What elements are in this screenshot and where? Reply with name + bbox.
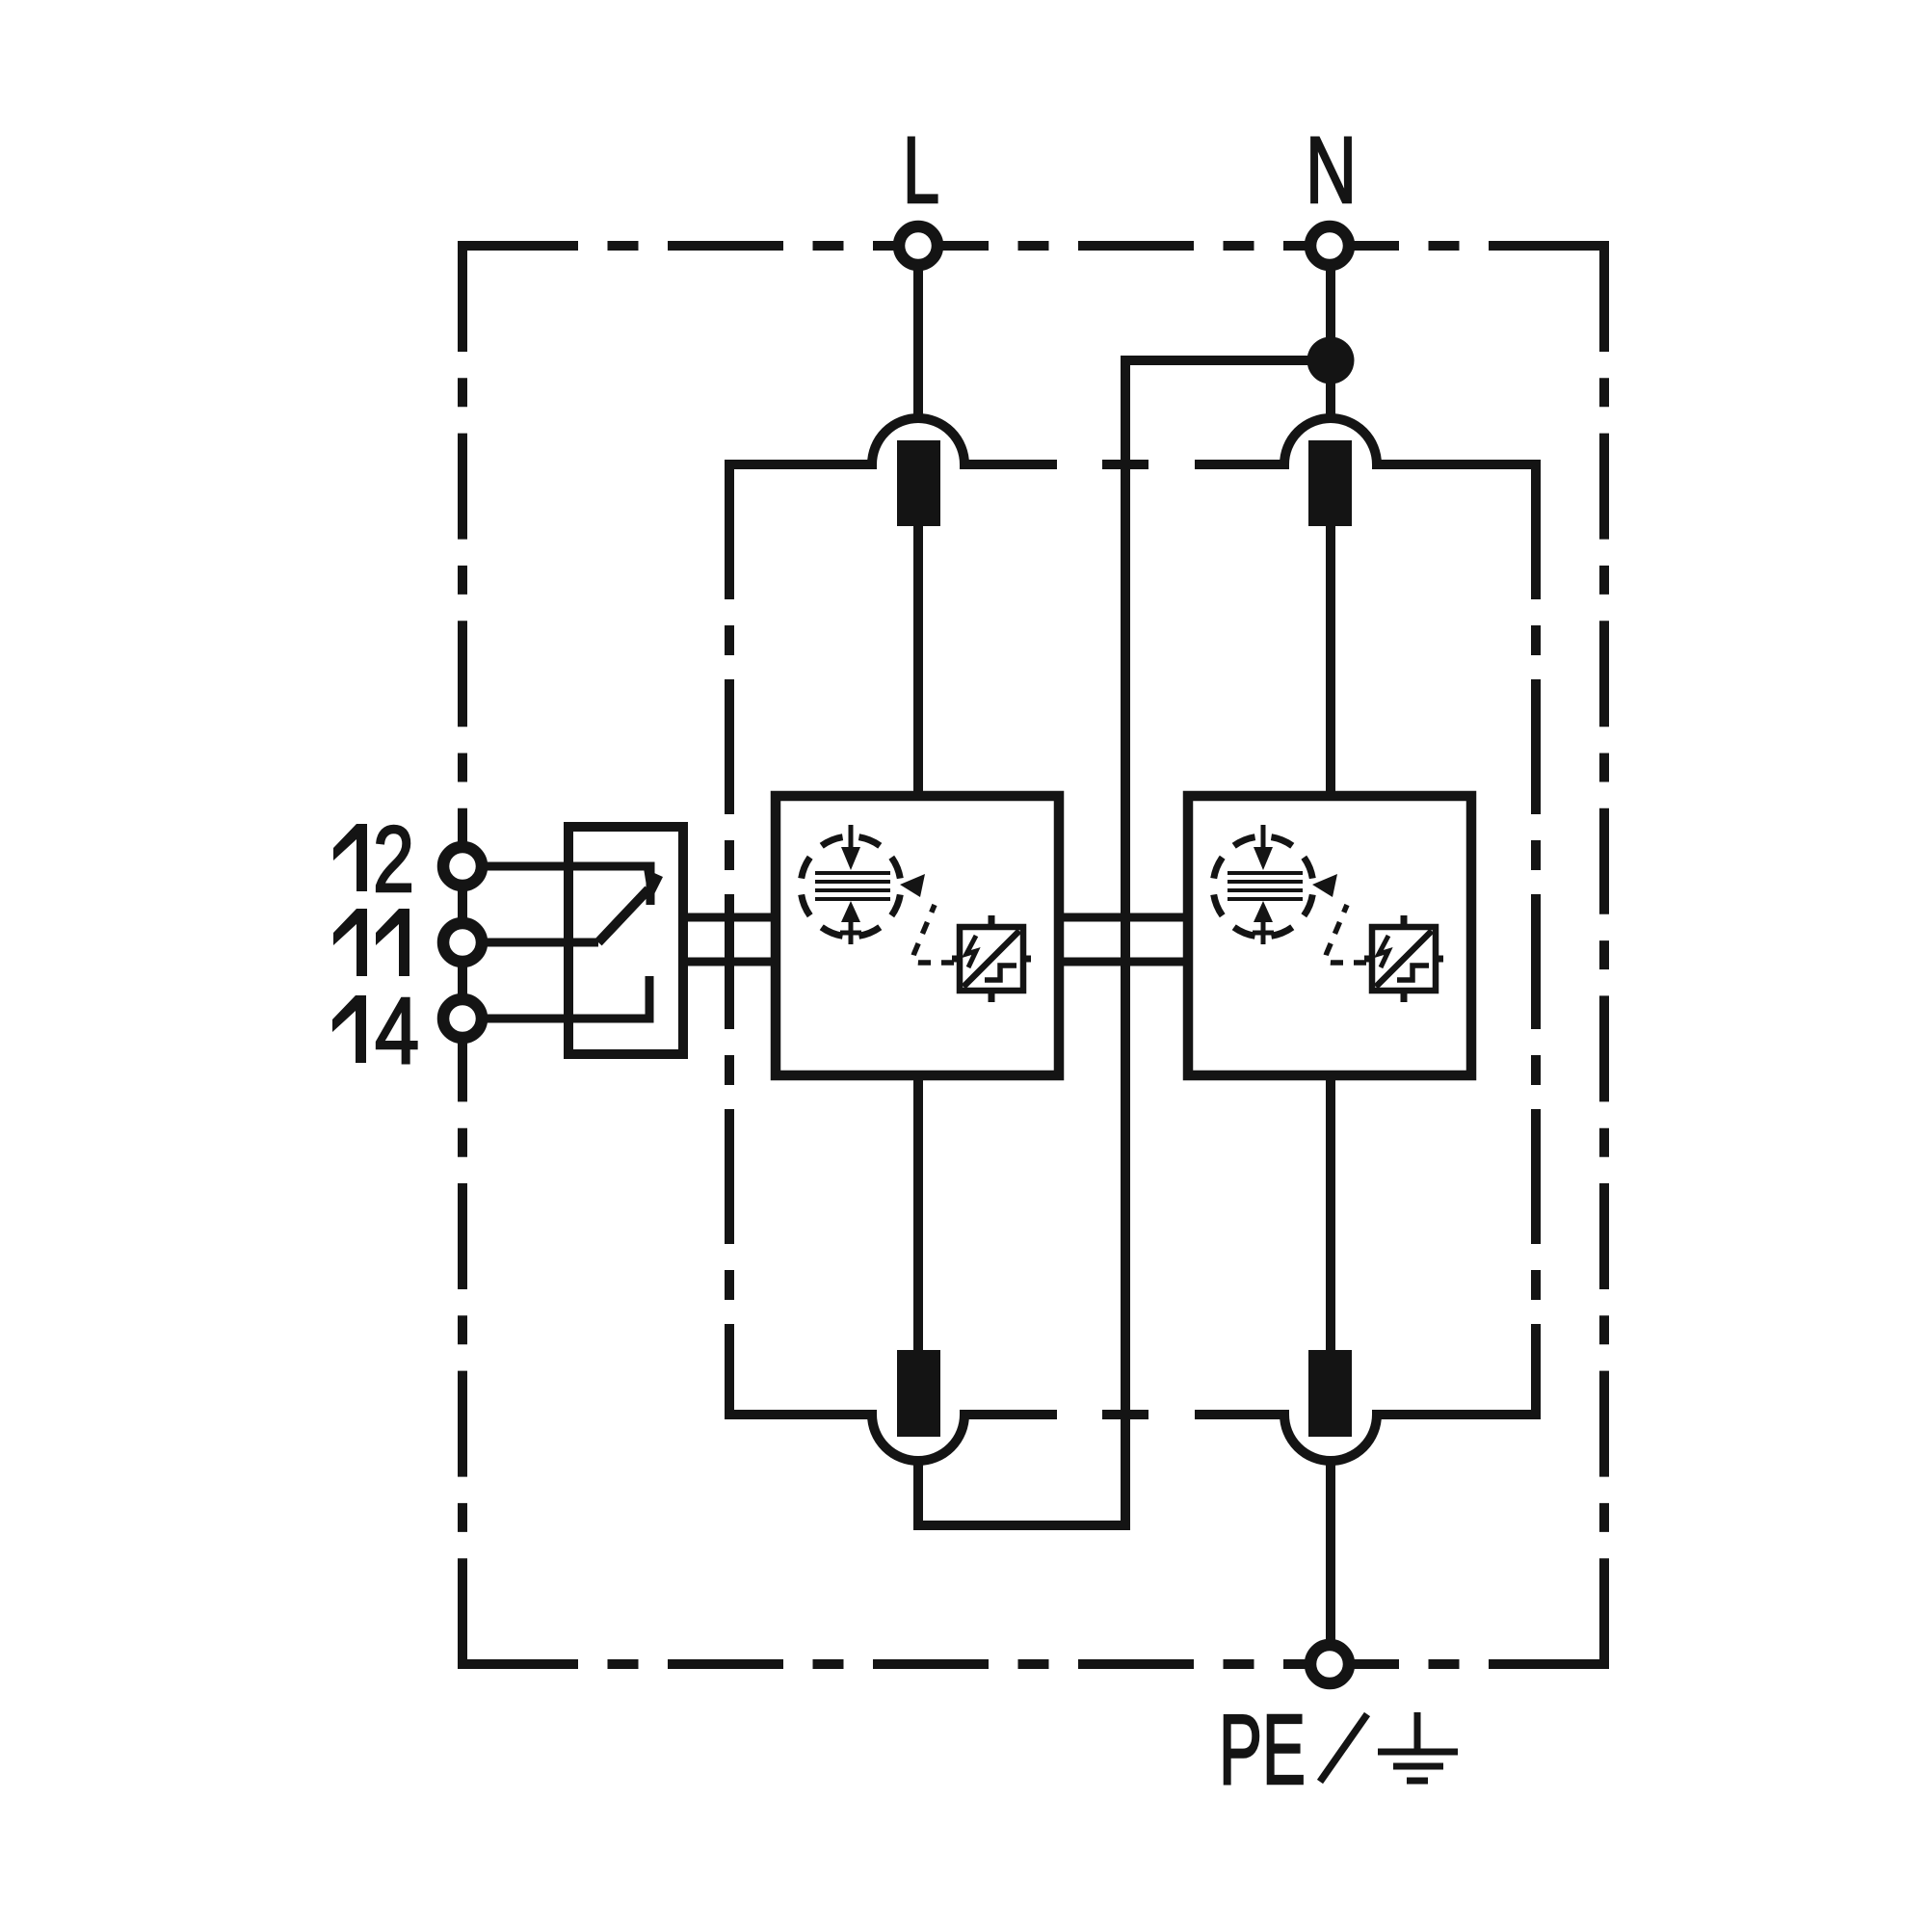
svg-text:N: N xyxy=(1306,118,1357,223)
svg-text:L: L xyxy=(903,118,939,223)
svg-text:4: 4 xyxy=(375,978,419,1083)
svg-text:PE: PE xyxy=(1219,1694,1306,1805)
svg-text:2: 2 xyxy=(373,807,414,912)
